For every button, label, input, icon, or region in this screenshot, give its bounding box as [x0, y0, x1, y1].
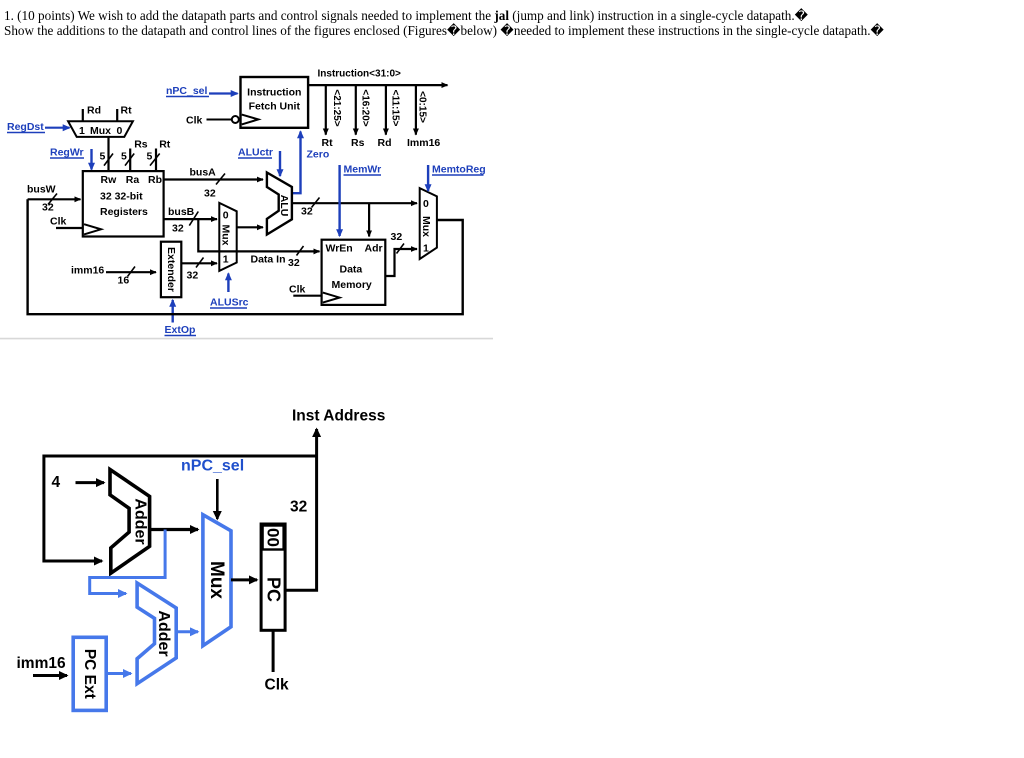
svg-text:32: 32 [301, 206, 313, 218]
instruction fetch unit U1 [241, 77, 309, 128]
svg-text:imm16: imm16 [71, 265, 104, 277]
svg-text:Rt: Rt [159, 139, 171, 151]
wire MemWr to WrEn [338, 165, 340, 236]
svg-text:Rd: Rd [378, 137, 392, 149]
wire adder A2 to mux M4 [176, 630, 198, 633]
svg-text:Mux: Mux [420, 216, 432, 237]
wire Clk (PC) [272, 630, 275, 672]
svg-text:Mux: Mux [220, 225, 232, 246]
svg-text:0: 0 [423, 198, 429, 210]
svg-text:ALU: ALU [278, 195, 290, 217]
label RegWr [50, 147, 84, 159]
svg-text:Rt: Rt [121, 105, 133, 117]
svg-text:32: 32 [187, 270, 199, 282]
mux M4 (nPC_sel) [203, 515, 231, 646]
bus slash Ra [125, 154, 134, 166]
svg-text:Adder: Adder [132, 498, 149, 544]
wire busB [164, 218, 217, 220]
wire ExtOp to extender [171, 300, 173, 323]
bus slash Rb [150, 154, 160, 166]
label MemWr [344, 164, 382, 176]
register file [83, 171, 164, 236]
svg-text:<0:15>: <0:15> [417, 91, 428, 123]
svg-text:<21:25>: <21:25> [331, 89, 342, 126]
wire Clk (data memory) [293, 295, 321, 297]
wire Clk (register file) [56, 227, 83, 229]
svg-text:5: 5 [100, 151, 106, 163]
mux M3 MemtoReg [420, 188, 437, 259]
wire field tap <0:15> [415, 85, 417, 135]
svg-text:Rt: Rt [322, 137, 334, 149]
wire imm16 (fig2) [33, 674, 67, 677]
label RegDst [7, 121, 45, 133]
svg-text:busB: busB [168, 206, 195, 218]
svg-text:nPC_sel: nPC_sel [181, 458, 244, 475]
wire constant 4 [76, 481, 105, 484]
svg-text:busW: busW [27, 184, 56, 196]
register PC [261, 524, 285, 630]
svg-text:Mux: Mux [206, 561, 227, 599]
svg-text:32: 32 [290, 499, 307, 516]
wire imm16 [106, 271, 156, 273]
svg-text:Registers: Registers [100, 206, 148, 218]
svg-text:Ra: Ra [126, 174, 140, 186]
wire field tap <21:25> [325, 85, 327, 135]
clock bubble (IFU) [232, 116, 239, 123]
svg-text:Adr: Adr [365, 243, 383, 255]
bus slash imm16 [128, 267, 136, 277]
label ExtOp [165, 324, 197, 336]
wire mux M1 to Rw [107, 137, 109, 171]
bus slash data out [397, 244, 405, 254]
svg-text:1: 1 [79, 125, 85, 137]
wire instruction bus [308, 84, 447, 86]
wire nPC_sel to IFU [209, 92, 238, 94]
svg-text:ALUSrc: ALUSrc [210, 297, 249, 309]
svg-text:1: 1 [223, 254, 229, 266]
adder A1 (PC+4) [110, 470, 150, 574]
wire busW feedback [28, 199, 463, 314]
svg-text:Clk: Clk [289, 284, 306, 296]
svg-text:<11:15>: <11:15> [389, 90, 400, 127]
adder A2 (branch) [137, 583, 176, 684]
wire Rt tick [116, 109, 118, 121]
wire Rd tick [82, 109, 84, 121]
svg-text:nPC_sel: nPC_sel [166, 85, 208, 97]
mux M2 ALUSrc [219, 203, 236, 271]
wire mux M2 to ALU [237, 226, 263, 228]
wire PC Ext to adder A2 [106, 672, 131, 675]
svg-text:32: 32 [391, 231, 403, 243]
svg-text:RegWr: RegWr [50, 147, 84, 159]
svg-text:Clk: Clk [50, 216, 67, 228]
svg-text:Mux: Mux [90, 125, 111, 137]
svg-text:RegDst: RegDst [7, 121, 44, 133]
clock edge triangle (data memory) [323, 293, 340, 303]
svg-text:MemWr: MemWr [344, 164, 382, 176]
bus slash busB [189, 212, 198, 226]
svg-text:Clk: Clk [265, 677, 290, 694]
wire PC+4 feedback loop [44, 456, 317, 561]
svg-text:5: 5 [121, 151, 127, 163]
wire MemtoReg to mux M3 [427, 165, 429, 191]
clock edge triangle (IFU) [242, 115, 259, 125]
wire mux M4 to PC [231, 578, 257, 581]
label nPC_sel [166, 85, 209, 97]
svg-text:WrEn: WrEn [326, 243, 353, 255]
svg-text:00: 00 [263, 528, 282, 547]
svg-text:Rb: Rb [148, 174, 162, 186]
wire Rb input [155, 149, 157, 172]
ALU U2 [267, 173, 292, 235]
wire nPC_sel select [216, 479, 219, 519]
label ALUSrc [210, 297, 249, 309]
wire adder A1 to mux M4 [150, 528, 198, 531]
svg-text:Instruction: Instruction [247, 87, 301, 99]
svg-text:1: 1 [423, 243, 429, 255]
label MemtoReg [432, 164, 486, 176]
svg-text:0: 0 [117, 125, 123, 137]
label ALUctr [238, 147, 273, 159]
svg-text:PC: PC [264, 577, 284, 602]
svg-text:4: 4 [52, 474, 61, 491]
wire RegWr to register file [90, 149, 92, 170]
register 00 field [263, 526, 284, 550]
svg-text:Extender: Extender [165, 247, 177, 292]
svg-text:Rd: Rd [87, 105, 101, 117]
wire PC value to adder A2 [90, 530, 165, 594]
svg-text:Rs: Rs [351, 137, 365, 149]
wire ALUctr to ALU [279, 151, 281, 176]
separator rule [0, 338, 493, 340]
svg-text:32: 32 [172, 223, 184, 235]
svg-text:Imm16: Imm16 [407, 137, 440, 149]
clock edge triangle (register file) [84, 224, 101, 234]
wire branch to Adr [368, 203, 370, 236]
wire busB branch to Data In [198, 219, 319, 251]
svg-text:Clk: Clk [186, 115, 203, 127]
svg-text:Data In: Data In [251, 254, 286, 266]
svg-text:Data: Data [340, 264, 363, 276]
svg-text:Rs: Rs [134, 139, 148, 151]
svg-text:imm16: imm16 [17, 655, 66, 672]
mux M1 RegDst [68, 121, 133, 137]
bus slash Data In [297, 246, 304, 256]
svg-text:32: 32 [288, 257, 300, 269]
wire field tap <11:15> [385, 85, 387, 135]
bus slash busA [216, 174, 225, 185]
svg-text:32: 32 [204, 188, 216, 200]
wire field tap <16:20> [355, 85, 357, 135]
svg-text:Adder: Adder [155, 610, 172, 656]
bus slash ALU out [312, 198, 320, 208]
svg-text:0: 0 [223, 210, 229, 222]
wire RegDst to mux M1 [45, 127, 70, 129]
svg-text:Inst Address: Inst Address [292, 408, 385, 425]
svg-text:MemtoReg: MemtoReg [432, 164, 486, 176]
wire PC output to Inst Address [285, 429, 317, 590]
svg-text:<16:20>: <16:20> [360, 89, 371, 126]
wire busA [164, 178, 263, 180]
wire Zero [293, 132, 301, 194]
wire Ra input [129, 149, 131, 172]
svg-text:Fetch Unit: Fetch Unit [249, 101, 301, 113]
extender [161, 242, 181, 298]
bus slash Rw [104, 154, 113, 166]
wire ALU output [292, 202, 417, 204]
wire ALUSrc to mux M2 [227, 274, 229, 293]
svg-text:PC Ext: PC Ext [81, 649, 98, 699]
bus slash busW [48, 194, 57, 205]
svg-text:ExtOp: ExtOp [165, 324, 196, 336]
bus slash extender out [196, 258, 204, 268]
svg-text:ALUctr: ALUctr [238, 147, 273, 159]
data memory [322, 240, 386, 305]
svg-text:Rw: Rw [101, 174, 118, 186]
problem statement text [4, 8, 884, 38]
wire busW [28, 198, 81, 200]
svg-text:16: 16 [118, 275, 130, 287]
register PC Ext [73, 637, 106, 710]
wire Clk to IFU [207, 119, 232, 121]
svg-text:32 32-bit: 32 32-bit [100, 191, 143, 203]
svg-text:busA: busA [190, 167, 217, 179]
svg-text:Zero: Zero [307, 149, 330, 161]
wire extender to mux M2 [181, 262, 217, 264]
wire data out to mux M3 [385, 249, 417, 276]
svg-text:32: 32 [42, 202, 54, 214]
svg-text:Instruction<31:0>: Instruction<31:0> [318, 69, 402, 80]
svg-text:5: 5 [147, 151, 153, 163]
svg-text:Memory: Memory [332, 279, 372, 291]
